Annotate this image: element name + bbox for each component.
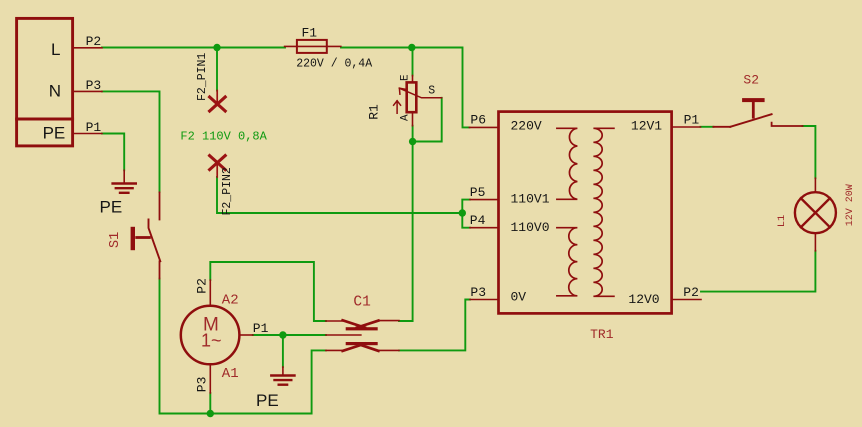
TR1 primary winding lower — [557, 228, 578, 296]
wire branch to F2_PIN1 — [216, 48, 218, 91]
F2_PIN1 pin stub — [216, 91, 218, 105]
node junction R1 top branch — [408, 44, 415, 51]
wire motor P2 top to C1 top-left — [210, 262, 326, 321]
svg-text:S1: S1 — [108, 232, 123, 248]
svg-text:P2: P2 — [86, 34, 102, 49]
F2_PIN1 X mark — [210, 97, 226, 111]
F2_PIN2 pin stub — [216, 163, 218, 177]
wire TR1 P1 to S2 — [701, 126, 714, 128]
wire net after fuse F1 to node and right — [341, 48, 469, 128]
svg-text:F1: F1 — [302, 25, 318, 40]
wire lamp L1 bottom to TR1 P2 — [701, 251, 815, 292]
lamp L1 — [795, 178, 836, 251]
wire net L: P2 to fuse F1 left — [102, 47, 285, 49]
node junction P5/P4 — [459, 209, 466, 216]
svg-text:F2_PIN2: F2_PIN2 — [221, 167, 234, 215]
transformer TR1 — [469, 112, 701, 314]
svg-text:P3: P3 — [86, 78, 102, 93]
svg-text:F2_PIN1: F2_PIN1 — [196, 53, 209, 101]
wire motor node to PE ground — [282, 335, 284, 367]
F2_PIN2 X mark — [210, 156, 226, 170]
svg-text:N: N — [49, 82, 61, 101]
svg-text:0V: 0V — [511, 290, 527, 305]
switch S2 — [713, 98, 802, 127]
svg-text:PE: PE — [100, 197, 123, 216]
svg-text:P3: P3 — [470, 285, 486, 300]
svg-text:220V / 0,4A: 220V / 0,4A — [296, 58, 372, 71]
switch S1 — [131, 192, 161, 278]
svg-text:R1: R1 — [367, 104, 382, 120]
node junction F2_PIN1 branch — [213, 44, 220, 51]
svg-text:110V1: 110V1 — [511, 191, 550, 206]
potentiometer R1 — [394, 76, 442, 126]
svg-text:TR1: TR1 — [590, 327, 614, 342]
TR1 secondary winding — [593, 128, 614, 296]
TR1 primary winding upper — [557, 128, 578, 199]
svg-text:C1: C1 — [353, 294, 370, 310]
svg-text:F2 110V 0,8A: F2 110V 0,8A — [180, 130, 267, 144]
wire R1 wiper S loop — [413, 98, 442, 142]
svg-text:S2: S2 — [743, 72, 759, 87]
svg-text:P1: P1 — [86, 120, 102, 135]
wire S2 to lamp L1 top — [803, 126, 816, 178]
svg-text:12V1: 12V1 — [631, 118, 662, 133]
svg-text:12V0: 12V0 — [628, 292, 659, 307]
svg-text:L: L — [51, 40, 60, 59]
wire motor P1 to C1 middle pin — [253, 334, 326, 336]
connector X1 (L/N/PE block) — [17, 18, 102, 145]
node junction motor P1 — [279, 331, 286, 338]
wire C1 top-right to R1 bottom node — [399, 142, 413, 322]
svg-text:110V0: 110V0 — [511, 220, 550, 235]
svg-text:P1: P1 — [253, 321, 269, 336]
wire R1 bottom pin to node — [412, 126, 414, 142]
wire C1 bottom-right to TR1 P3 — [399, 300, 470, 351]
wire S1 bottom to bottom rail to C1 bottom-left — [160, 279, 326, 414]
wire motor P3 to bottom rail — [209, 393, 211, 414]
svg-text:P1: P1 — [684, 113, 700, 128]
svg-text:PE: PE — [43, 124, 66, 143]
node junction bottom rail / motor P3 — [207, 410, 214, 417]
svg-text:PE: PE — [256, 391, 279, 410]
wire from F2_PIN2 to TR1 P5/P4 node — [217, 177, 462, 213]
svg-text:12V 20W: 12V 20W — [845, 184, 856, 226]
svg-text:1~: 1~ — [201, 330, 222, 350]
svg-text:L1: L1 — [776, 215, 788, 228]
svg-text:E: E — [400, 74, 412, 81]
svg-text:A2: A2 — [222, 292, 239, 308]
svg-text:220V: 220V — [511, 118, 542, 133]
svg-text:P2: P2 — [683, 285, 699, 300]
capacitor C1 — [326, 320, 399, 351]
svg-text:P3: P3 — [195, 377, 210, 393]
svg-text:P6: P6 — [470, 113, 486, 128]
wire R1 top pin — [412, 48, 414, 76]
X marks: fuse F2 not placed — [210, 91, 226, 178]
motor M1 — [181, 280, 253, 393]
wire net N: P3 to S1 top — [102, 91, 160, 192]
ground PE (top left) — [113, 170, 136, 193]
svg-text:A1: A1 — [222, 366, 239, 382]
svg-text:P4: P4 — [470, 213, 486, 228]
svg-text:S: S — [428, 85, 435, 98]
svg-text:P5: P5 — [470, 185, 486, 200]
ground PE (motor) — [271, 367, 294, 385]
wire P5-P4 link — [462, 200, 470, 228]
wire net PE: P1 to ground — [102, 134, 124, 171]
node junction R1 bottom / wiper — [409, 138, 416, 145]
svg-text:A: A — [400, 114, 412, 121]
svg-text:P2: P2 — [195, 278, 210, 294]
fuse F1 — [285, 40, 341, 53]
